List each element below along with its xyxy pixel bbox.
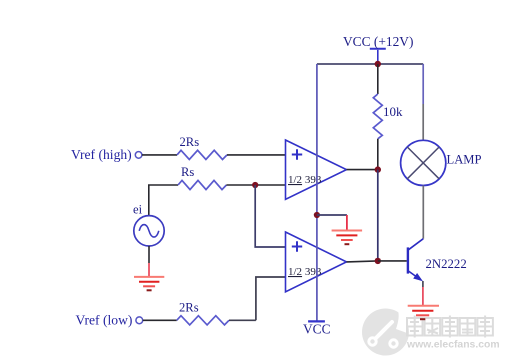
svg-text:VCC (+12V): VCC (+12V) [343, 34, 413, 49]
wire Vref(high) to 2Rs [142, 154, 177, 156]
ground (ei) [134, 277, 164, 290]
wire base node to transistor base [378, 260, 407, 262]
resistor 2Rs (bottom) [177, 316, 229, 325]
resistor 2Rs (top) [177, 150, 227, 159]
lamp X1 [401, 140, 446, 185]
wire lamp to collector [422, 186, 424, 239]
wire Vref(low) to 2Rs [143, 319, 177, 321]
svg-text:2Rs: 2Rs [180, 135, 200, 149]
resistor Rs [178, 180, 226, 189]
wire 2Rs to riser [229, 319, 256, 321]
svg-text:10k: 10k [383, 104, 403, 119]
wire node to ground [317, 214, 347, 216]
node base junction [375, 258, 381, 264]
svg-text:2Rs: 2Rs [179, 301, 199, 315]
svg-text:VCC: VCC [303, 322, 331, 337]
op-amp U1A (1/2 393) [286, 140, 347, 199]
wire output node down to base node [377, 170, 379, 261]
transistor Q1 2N2222 [408, 239, 423, 282]
wire U1A output to node [347, 169, 378, 171]
resistor 10k [373, 94, 382, 139]
wire rail to 10k [377, 64, 379, 94]
svg-text:LAMP: LAMP [447, 153, 482, 167]
op-amp U1B (1/2 393) [286, 232, 347, 292]
wire riser node A to U1B input+ [255, 185, 285, 247]
terminal Vref(low) [136, 317, 143, 324]
wire VCC stem [377, 50, 379, 64]
wire riser to U1B input- [256, 277, 286, 320]
svg-text:Vref (high): Vref (high) [71, 147, 132, 163]
power symbol VCC (bottom) bar [308, 320, 325, 322]
ground (op-amp) [332, 231, 363, 245]
source ei (sine) [134, 216, 164, 246]
wire rail to lamp [422, 64, 424, 104]
wire power line through op-amps [316, 64, 318, 321]
wire ei corner to Rs [149, 185, 178, 216]
power symbol VCC (+12V) bar [370, 48, 386, 50]
watermark logo (elecfans) [362, 309, 409, 356]
wire 2Rs to op-amp U1A input+ [227, 154, 286, 156]
node A junction (Rs / riser) [252, 182, 258, 188]
terminal Vref(high) [135, 152, 142, 159]
watermark chinese glyph blocks [407, 316, 493, 338]
node rail junction [375, 61, 381, 67]
node power/gnd junction [314, 212, 320, 218]
wire ei to ground [148, 246, 150, 263]
wire Rs to op-amp U1A input- [226, 184, 285, 186]
VCC rail wire (horizontal) [317, 63, 423, 65]
wire U1B output to base node [347, 261, 378, 262]
svg-text:www.elecfans.com: www.elecfans.com [406, 340, 500, 351]
svg-text:ei: ei [133, 203, 143, 217]
node output junction [375, 166, 381, 172]
wire emitter to ground [422, 281, 424, 287]
ground (emitter) [408, 306, 439, 320]
wire 10k to output node [377, 139, 379, 170]
svg-text:Vref (low): Vref (low) [76, 313, 133, 329]
svg-text:Rs: Rs [181, 165, 194, 179]
svg-text:2N2222: 2N2222 [426, 257, 467, 271]
